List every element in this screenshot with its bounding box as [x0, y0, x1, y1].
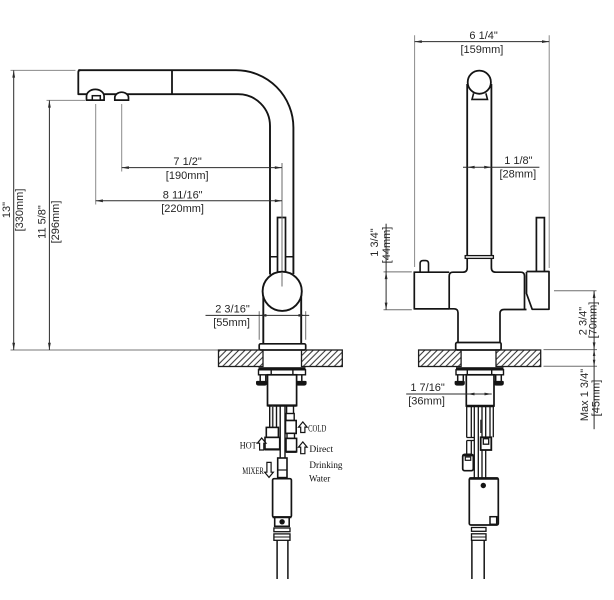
hot connector lower block	[265, 437, 280, 449]
right collar B midline	[472, 536, 487, 538]
cold collar	[286, 414, 294, 421]
right mounting nut band	[456, 370, 504, 375]
hot block bottom edge	[265, 448, 280, 450]
filter body (right view)	[469, 478, 498, 525]
svg-text:[296mm]: [296mm]	[50, 201, 62, 244]
cold connector block	[286, 421, 297, 434]
nut band dividers	[271, 370, 293, 375]
hot connector upper block	[266, 427, 278, 437]
dim 13in arrows	[12, 70, 15, 350]
ball joint	[263, 272, 302, 311]
svg-text:13": 13"	[1, 202, 13, 218]
spout tube outer contour (top edge + outer bend + right edge down to ball)	[78, 70, 293, 274]
svg-text:[45mm]: [45mm]	[591, 380, 603, 417]
mixer body lower section	[275, 517, 290, 526]
dim 2 3/16 extension ticks	[259, 311, 306, 340]
svg-text:[44mm]: [44mm]	[381, 227, 393, 264]
dim 11 5/8 arrows	[48, 100, 51, 350]
aerator large notch	[92, 96, 100, 100]
mixer collar B midline	[274, 536, 290, 538]
spout tip circle	[468, 71, 491, 94]
aerator small (rear outlet)	[115, 92, 129, 100]
counter bottom extension line	[544, 365, 598, 367]
dim 2 3/4 arrows	[593, 291, 596, 350]
mixer joint divider	[278, 469, 287, 471]
dim 6 1/4 line	[415, 41, 550, 43]
dim 1 3/4 extension lines	[384, 272, 412, 310]
svg-text:MIXER: MIXER	[242, 467, 264, 477]
centre line through vertical pipe to ball centre	[281, 163, 283, 287]
dim 1 7/16 arrows	[467, 393, 491, 396]
mounting washer bar	[259, 367, 306, 370]
mixer hose	[277, 540, 288, 579]
filter body dot	[481, 483, 486, 488]
svg-text:1 7/16": 1 7/16"	[410, 382, 445, 394]
svg-text:Water: Water	[309, 475, 331, 485]
svg-text:COLD: COLD	[308, 425, 326, 435]
svg-text:Max 1 3/4": Max 1 3/4"	[579, 369, 591, 421]
right base flange	[456, 343, 501, 351]
mixer collar B	[274, 534, 290, 540]
left bolt foot	[256, 381, 267, 386]
svg-text:[28mm]: [28mm]	[499, 169, 536, 181]
cold connector inner square	[483, 439, 488, 445]
svg-text:[55mm]: [55mm]	[213, 317, 250, 329]
mounting nut band	[259, 370, 306, 375]
right right bolt	[496, 375, 502, 382]
base cylinder below ball	[263, 292, 301, 344]
direct up arrow	[299, 442, 308, 454]
right tube (cold / filter)	[287, 406, 294, 414]
body bottom steps to column	[414, 309, 526, 343]
svg-text:[159mm]: [159mm]	[461, 44, 504, 56]
svg-text:7 1/2": 7 1/2"	[173, 156, 201, 168]
spout tip cup	[472, 93, 488, 99]
mixer supply body	[273, 479, 292, 518]
handle block	[527, 272, 550, 310]
dim 1 3/4 arrows	[385, 272, 388, 310]
right mounting washer bar	[456, 367, 504, 370]
svg-text:[220mm]: [220mm]	[161, 203, 204, 215]
dim max 1 3/4 line	[593, 350, 595, 430]
right nut band dividers	[467, 370, 491, 375]
right bolt	[296, 375, 302, 382]
filter body top edge	[469, 477, 498, 479]
aerator extension line near	[121, 104, 123, 172]
under-counter body bottom edge	[268, 404, 297, 406]
dim 7 1/2 arrows	[122, 166, 282, 169]
under-counter body	[268, 375, 297, 406]
right hose	[472, 540, 484, 579]
direct water connector block	[286, 438, 297, 451]
svg-text:[70mm]: [70mm]	[588, 302, 600, 339]
countertop hatched section right (right view)	[496, 350, 541, 367]
tube bridge	[467, 438, 475, 441]
dim 7 1/2 line	[122, 167, 282, 169]
dim 2 3/4 extension line top	[554, 290, 597, 292]
counter top extension line	[544, 349, 598, 351]
left bolt	[260, 375, 266, 382]
countertop hatched section left of faucet	[219, 350, 264, 367]
dim 8 11/16 arrows	[96, 199, 282, 202]
right left bolt foot	[455, 381, 465, 386]
dim 13in extension line top	[11, 69, 76, 71]
right under-counter body	[466, 375, 494, 406]
right bolt foot	[295, 381, 306, 386]
mixer body section top edge	[273, 516, 292, 518]
svg-text:2 3/16": 2 3/16"	[215, 303, 250, 315]
spout tube inner contour (bottom edge + inner bend + left edge down to ball)	[172, 94, 270, 274]
front pipe	[467, 84, 491, 256]
dim 2 3/16 line	[206, 314, 310, 316]
dim max arrows	[593, 350, 596, 367]
hot tube inner stripe	[272, 406, 274, 428]
svg-text:[36mm]: [36mm]	[408, 395, 445, 407]
svg-text:Drinking: Drinking	[309, 461, 342, 471]
mixer down arrow	[265, 462, 274, 477]
dim 2 3/4 line	[593, 291, 595, 350]
hot tube	[270, 406, 277, 428]
svg-text:11 5/8": 11 5/8"	[36, 205, 48, 239]
svg-text:1 1/8": 1 1/8"	[504, 155, 532, 167]
hot elbow top edge	[463, 454, 474, 456]
dim 11 5/8 line	[48, 100, 50, 350]
svg-text:8 11/16": 8 11/16"	[163, 189, 203, 201]
svg-text:Direct: Direct	[309, 445, 333, 455]
dim 13in line	[13, 70, 15, 350]
dim 11 5/8 extension line	[47, 99, 86, 101]
svg-text:1 3/4": 1 3/4"	[369, 228, 381, 256]
centre line inside ball	[281, 272, 283, 287]
filter notch square	[490, 517, 497, 525]
lever rod (front view)	[536, 218, 544, 272]
mixer body dot	[279, 519, 284, 524]
hot elbow inner square	[465, 457, 470, 460]
dim 6 1/4 extension line left	[414, 35, 416, 267]
countertop thin line (left)	[11, 349, 219, 351]
tube slot detail	[480, 420, 482, 433]
mixer tube upper	[280, 406, 285, 458]
cold mid collar	[287, 433, 295, 438]
spout head body (pull-out head)	[78, 70, 172, 94]
right collar B	[472, 534, 487, 541]
right right bolt foot	[494, 381, 504, 386]
dim 8 11/16 line	[96, 200, 282, 202]
pipe joint line	[270, 256, 293, 258]
right left bolt	[458, 375, 464, 382]
svg-text:HOT: HOT	[240, 442, 257, 452]
aerator extension line far	[95, 104, 97, 205]
dim 6 1/4 arrows	[415, 40, 550, 43]
svg-text:[190mm]: [190mm]	[166, 170, 209, 182]
cold connector block (right view)	[481, 437, 492, 450]
handle rod (side view)	[278, 218, 286, 272]
pipe collar step	[465, 256, 493, 259]
right tubes	[467, 406, 494, 478]
svg-text:[330mm]: [330mm]	[14, 189, 26, 232]
svg-text:6 1/4": 6 1/4"	[469, 30, 497, 42]
direct water block bottom edge	[286, 451, 297, 453]
hot up arrow	[257, 438, 266, 450]
countertop hatched section right of faucet	[302, 350, 343, 367]
main body (front) with shoulders	[449, 259, 524, 310]
left tube continues	[467, 441, 472, 455]
left outlet block	[414, 272, 449, 309]
mixer collar A	[274, 528, 290, 532]
base flange	[259, 344, 306, 350]
right collar A	[472, 528, 487, 532]
countertop hatched section left (right view)	[419, 350, 462, 367]
dim 6 1/4 extension line right	[548, 35, 550, 268]
aerator large (front outlet)	[87, 89, 105, 100]
dim 2 3/16 arrows	[259, 314, 306, 317]
hot elbow fitting	[463, 454, 474, 470]
dim 1 7/16 line	[406, 393, 492, 395]
right under-counter body bottom edge	[466, 405, 494, 407]
cold up arrow	[299, 422, 308, 433]
dim 1 3/4 line	[385, 224, 387, 310]
left outlet tab	[420, 261, 428, 273]
dim 1 1/8 line	[463, 166, 539, 168]
mixer joint block	[278, 458, 287, 478]
dim 1 1/8 arrows	[467, 166, 491, 169]
